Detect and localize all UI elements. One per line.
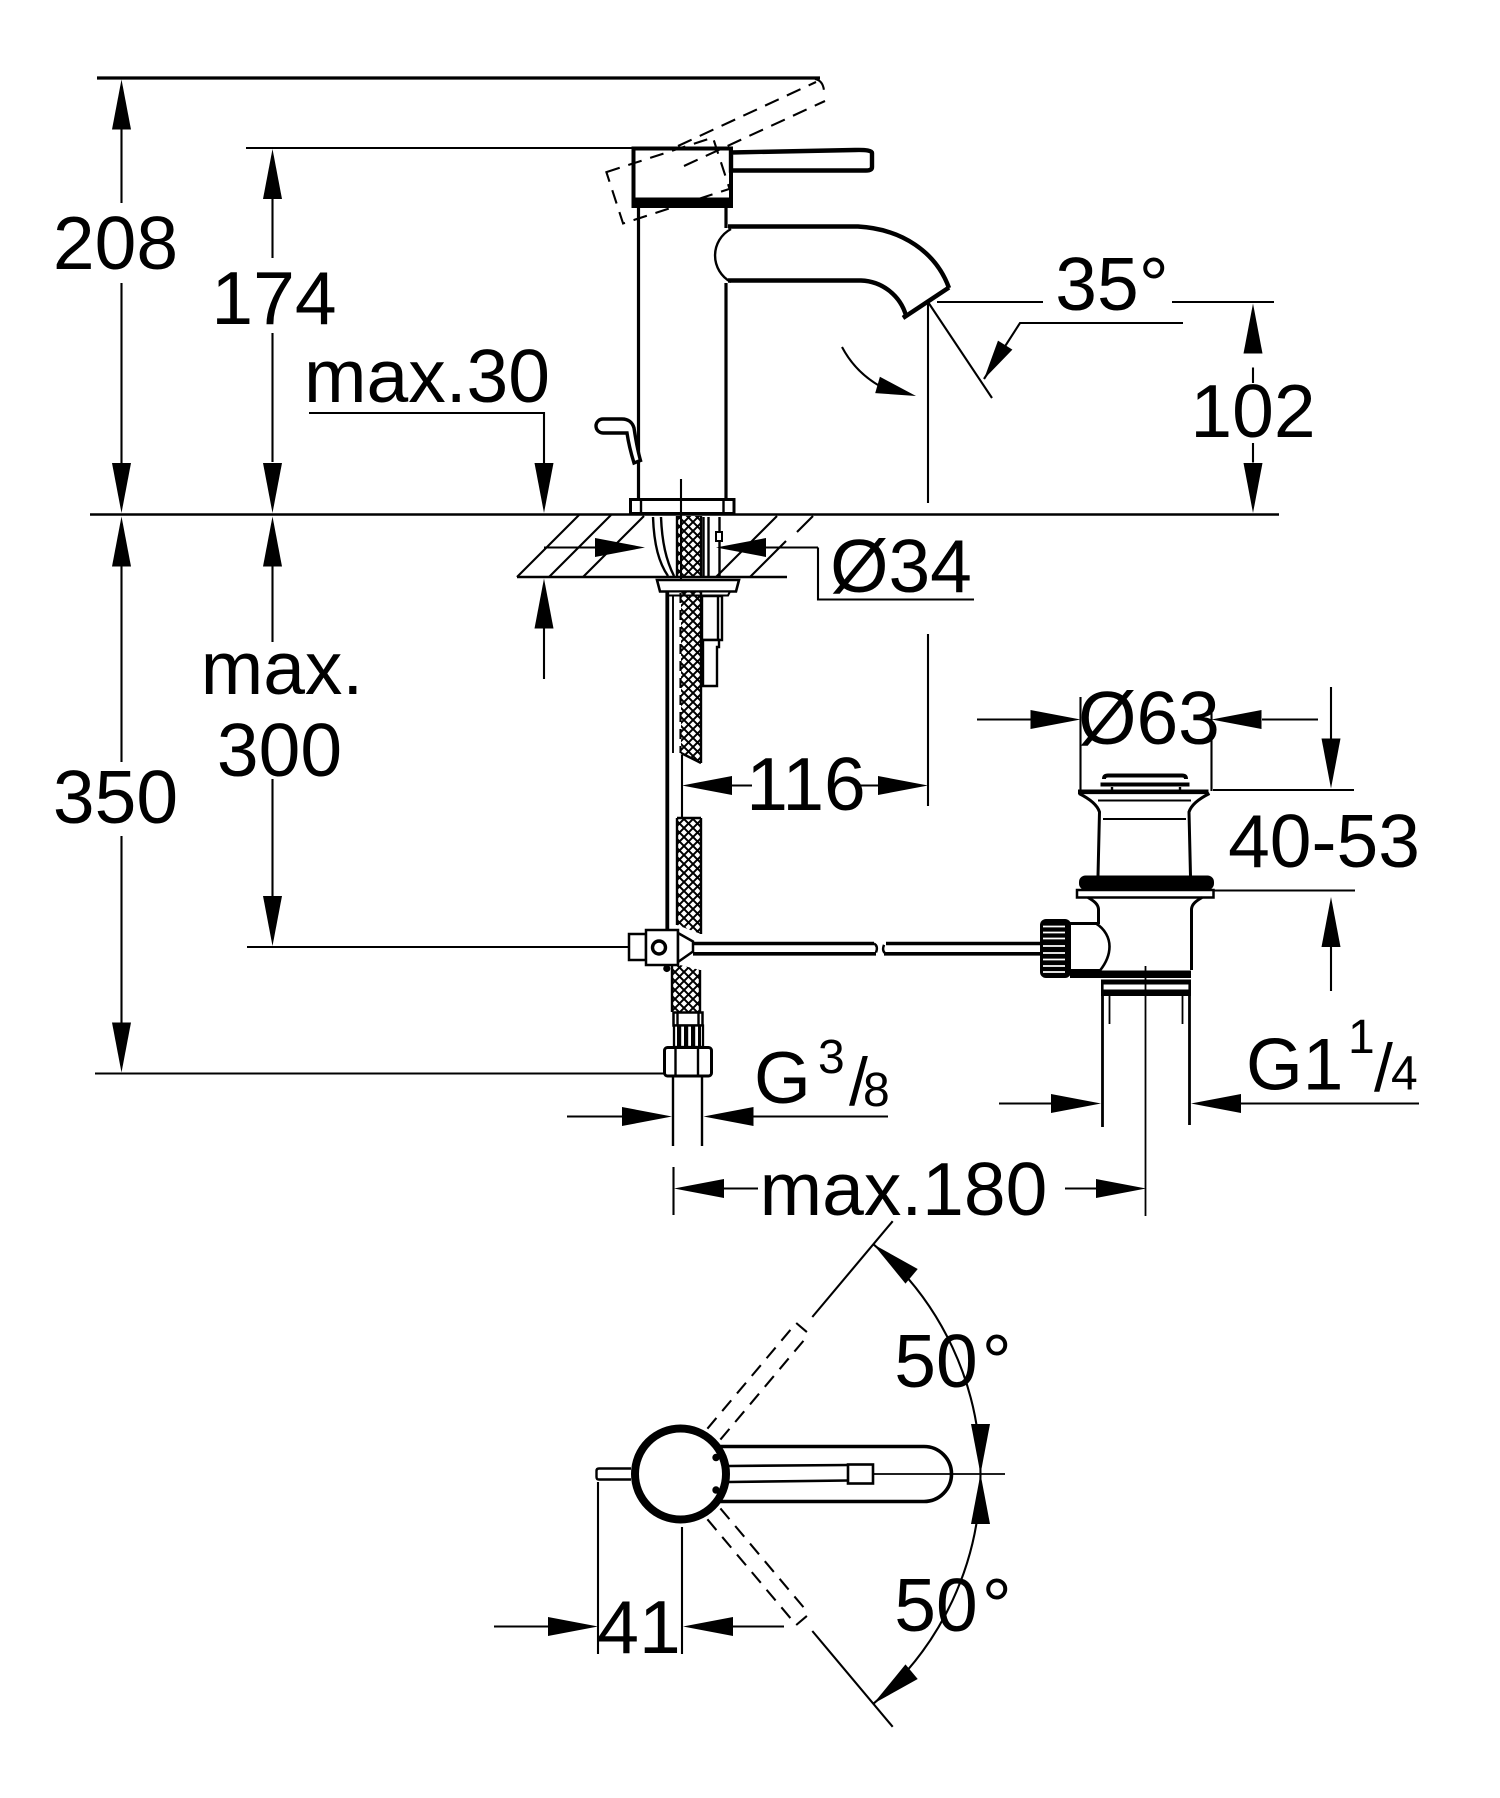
drain valve knurled knob [1040,919,1071,978]
faucet cap dashed tilted position [606,138,729,224]
pop-up pull rod below deck [665,592,669,964]
svg-text:50°: 50° [894,1319,1011,1403]
svg-text:350: 350 [53,755,178,839]
svg-text:G1: G1 [1246,1025,1343,1106]
mounting nut under deck [657,580,739,596]
svg-text:50°: 50° [894,1563,1011,1647]
dimension 41 (tab offset) [494,1482,784,1669]
reference line (body height 174) [246,147,633,149]
braided hose segment in deck hole [677,516,701,577]
top view: rear tab [597,1469,632,1480]
drain valve housing [1070,924,1110,971]
dimension 50 degrees upper arc [867,1237,1012,1474]
svg-text:Ø34: Ø34 [830,524,972,608]
horizontal lift rod right segment [883,944,1040,954]
linkage clevis [629,930,693,965]
drain tailpipe [1103,996,1190,1128]
drain lower body [1088,898,1202,971]
pull rod ball end [663,965,670,972]
dimension diameter 34 (deck hole) [544,524,974,608]
dimension 50 degrees lower arc [867,1474,1012,1711]
braided hose segment below linkage [672,963,700,1012]
top view: handle dashed at -50 degrees [707,1508,809,1625]
drain flange neck [1079,794,1210,877]
faucet base plate [631,500,735,514]
top view: handle dashed at +50 degrees [707,1323,809,1440]
dimension max.300 [201,517,364,947]
top view: centerline through handle [873,1473,1005,1475]
dimension diameter 63 [977,676,1318,760]
svg-text:8: 8 [863,1064,890,1117]
threaded shank in deck hole [704,517,723,577]
drain pushbutton [1101,776,1190,791]
reference line max.300 bottom (linkage level) [247,946,630,948]
hose nut [665,1048,712,1077]
drain flange top plate [1078,789,1209,794]
svg-text:4: 4 [1391,1048,1418,1101]
svg-text:G: G [754,1038,811,1119]
shank tube below nut [702,596,722,686]
flow direction arc arrow [842,347,918,404]
svg-text:Ø63: Ø63 [1078,676,1220,760]
hose tail (G 3/8 connector) [673,1076,702,1146]
braided hose segment lower [677,818,701,934]
50 degree reference line lower [812,1631,892,1727]
top view: handle solid position [720,1447,952,1502]
dimension G1 1/4 (drain thread) [999,1011,1419,1113]
faucet spout [728,227,949,319]
svg-text:116: 116 [746,742,866,826]
dimension G 3/8 (supply connection) [567,1031,890,1126]
dimension 35 degrees (spout angle) [928,242,1183,398]
faucet lever dashed tilted position [678,79,825,166]
svg-text:208: 208 [53,201,178,285]
dimension 40-53 (clamping range) [1213,687,1420,991]
hose inner edge line [672,595,674,753]
horizontal lift rod left segment [693,944,877,954]
top view: faucet body circle [635,1429,726,1520]
svg-text:max.180: max.180 [760,1147,1048,1231]
pull rod inside body [680,479,682,580]
svg-text:40-53: 40-53 [1228,799,1420,883]
dimension 174 [211,149,336,513]
dimension max.30 (deck thickness) [304,334,553,679]
deck hatching [517,515,813,577]
top view: pivot dots [712,1454,719,1461]
50 degree reference line upper [812,1221,892,1317]
bottom reference line (350 level / hose end) [95,1072,666,1074]
dimension 102 (spout height) [937,302,1316,513]
svg-text:35°: 35° [1055,242,1168,326]
hose thread section [674,1026,703,1048]
hose inner edge line between braid sections [681,755,683,818]
drain rubber gasket [1079,876,1214,891]
dimension 208 [53,80,178,514]
stream centerline from spout [927,302,929,503]
faucet lever (solid position) [731,150,872,171]
deck underside line [517,576,787,578]
pop-up drain flange extension lines [1079,697,1081,791]
svg-text:3: 3 [818,1031,845,1084]
top view: lever bar [729,1465,873,1484]
pop-up rod knob at body rear [596,419,641,463]
dimension 116 (spout reach) [682,634,928,826]
top reference line (overall height 208) [97,76,820,79]
hose ferrule [674,1013,703,1026]
svg-text:max.: max. [201,626,364,710]
svg-text:300: 300 [217,708,342,792]
svg-text:41: 41 [597,1585,680,1669]
drain body bottom band [1070,971,1191,979]
dimension max.180 (drain offset) [674,1147,1147,1231]
deck top line [90,513,1279,515]
drain centerline [1145,966,1147,1216]
faucet cap (cartridge head) [632,149,734,207]
faucet body column [639,206,727,500]
dimension 350 [53,517,178,1073]
svg-text:174: 174 [211,256,336,340]
spout root bulge [715,229,731,282]
supply hose curves in deck hole [653,517,674,576]
braided hose segment upper [681,592,702,763]
svg-text:1: 1 [1348,1011,1375,1064]
svg-text:102: 102 [1190,369,1315,453]
drain clamping ring [1077,890,1214,898]
drain lower ring [1101,980,1191,997]
svg-text:max.30: max.30 [304,334,550,418]
